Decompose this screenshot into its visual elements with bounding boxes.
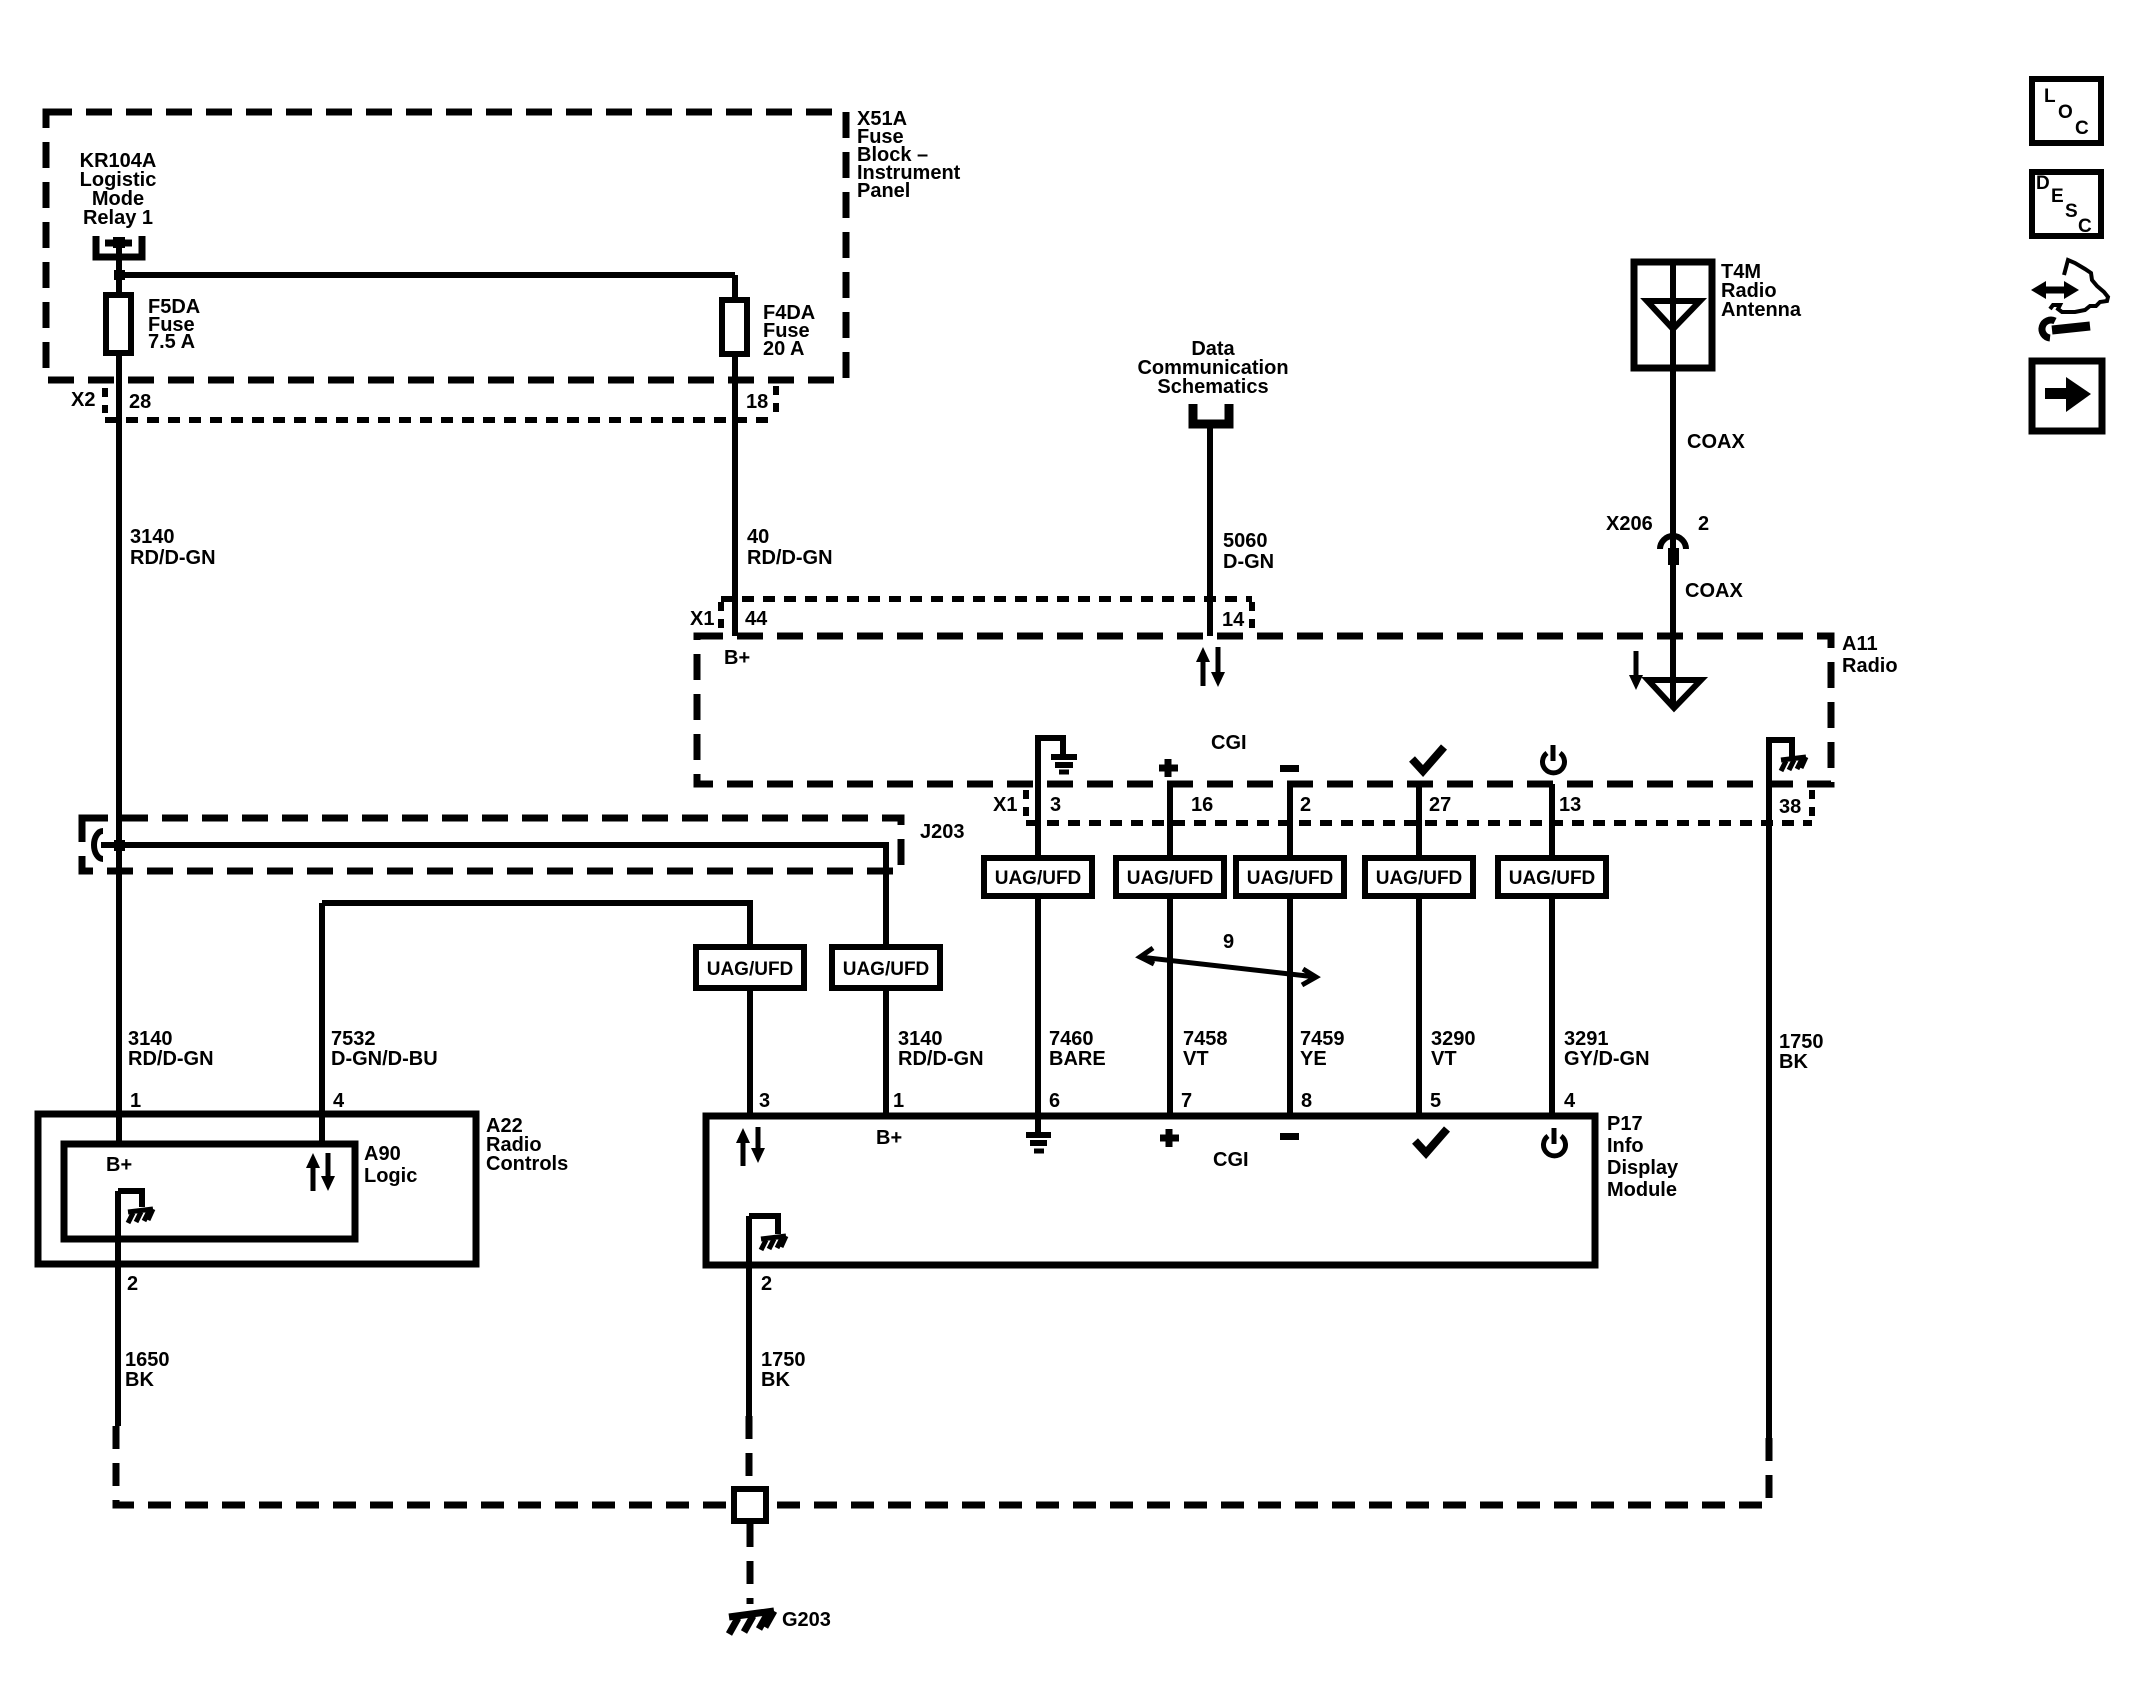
svg-text:YE: YE	[1300, 1048, 1327, 1070]
svg-text:1750: 1750	[1779, 1031, 1824, 1053]
svg-text:RD/D-GN: RD/D-GN	[128, 1048, 214, 1070]
check symbol P17	[1415, 1129, 1447, 1153]
icon wrench	[2042, 320, 2090, 338]
svg-text:9: 9	[1223, 931, 1234, 953]
svg-text:UAG/UFD: UAG/UFD	[707, 959, 794, 980]
bidirectional arrows P17	[736, 1127, 765, 1166]
dashed wire to G203	[747, 1524, 754, 1604]
svg-text:C: C	[2078, 216, 2092, 237]
svg-text:3: 3	[1050, 794, 1061, 816]
wire 1750 BK right	[1766, 784, 1772, 1438]
wire P17 pin1 below splice	[883, 988, 889, 1116]
svg-text:Module: Module	[1607, 1179, 1677, 1201]
connector X1 bottom strip	[1026, 790, 1812, 823]
wire 5060 D-GN	[1207, 424, 1213, 636]
radio controls A22 box	[38, 1114, 476, 1264]
connector X206 arc symbol	[1660, 536, 1686, 565]
wire horizontal to F4DA	[119, 272, 735, 278]
svg-text:Logic: Logic	[364, 1165, 417, 1187]
chassis ground P17	[749, 1216, 786, 1250]
splice box UAG/UFD pin16	[1116, 858, 1224, 896]
label X51A Fuse Block Instrument Panel	[857, 108, 961, 202]
chassis ground A90	[118, 1191, 153, 1223]
label 7460 BARE	[1049, 1028, 1106, 1070]
svg-text:2: 2	[1300, 794, 1311, 816]
splice node square	[734, 1489, 766, 1521]
power symbol radio	[1543, 745, 1565, 773]
bidirectional arrows A90	[306, 1153, 335, 1191]
splice box UAG/UFD pin27	[1365, 858, 1473, 896]
icon LOC box	[2032, 79, 2101, 143]
svg-text:RD/D-GN: RD/D-GN	[747, 547, 833, 569]
minus symbol P17	[1280, 1133, 1299, 1140]
splice box UAG/UFD pin13	[1498, 858, 1606, 896]
earth ground radio pin 3	[1038, 738, 1077, 784]
svg-text:3140: 3140	[898, 1028, 943, 1050]
connector J203 dashed box	[82, 818, 901, 871]
svg-text:P17: P17	[1607, 1113, 1643, 1135]
splice arc	[94, 831, 103, 859]
svg-text:3291: 3291	[1564, 1028, 1609, 1050]
svg-text:1: 1	[130, 1090, 141, 1112]
radio antenna T4M box	[1634, 262, 1712, 368]
splice box UAG/UFD p17 pin1	[832, 947, 940, 988]
svg-text:13: 13	[1559, 794, 1581, 816]
svg-text:UAG/UFD: UAG/UFD	[1376, 868, 1463, 889]
svg-text:X1: X1	[993, 794, 1017, 816]
svg-text:D-GN: D-GN	[1223, 551, 1274, 573]
svg-text:D-GN/D-BU: D-GN/D-BU	[331, 1048, 438, 1070]
fuse F4DA	[722, 300, 747, 354]
plus symbol radio	[1159, 759, 1178, 777]
svg-text:X206: X206	[1606, 513, 1653, 535]
earth ground P17 pin6	[1026, 1116, 1051, 1151]
svg-text:44: 44	[745, 608, 768, 630]
label 40 RD/D-GN	[747, 526, 833, 569]
svg-text:L: L	[2044, 86, 2056, 107]
svg-text:CGI: CGI	[1211, 732, 1247, 754]
svg-text:7.5 A: 7.5 A	[148, 331, 195, 353]
label 3291 GY/D-GN	[1564, 1028, 1650, 1070]
label T4M Radio Antenna	[1721, 261, 1802, 321]
label 3140 RD/D-GN lower left	[128, 1028, 214, 1070]
wire F4DA drop	[732, 275, 738, 300]
icon DESC box	[2032, 172, 2101, 237]
svg-text:C: C	[2075, 118, 2089, 139]
wire 7532 horizontal	[322, 903, 750, 947]
svg-text:7460: 7460	[1049, 1028, 1094, 1050]
label 3140 RD/D-GN center	[898, 1028, 984, 1070]
svg-text:7459: 7459	[1300, 1028, 1345, 1050]
svg-text:2: 2	[127, 1273, 138, 1295]
svg-text:8: 8	[1301, 1090, 1312, 1112]
icon car outline	[2050, 260, 2108, 312]
svg-text:Relay 1: Relay 1	[83, 207, 153, 229]
label 5060 D-GN	[1223, 530, 1274, 573]
svg-text:A11: A11	[1842, 633, 1878, 655]
svg-text:UAG/UFD: UAG/UFD	[995, 868, 1082, 889]
relay KR104A label	[80, 150, 157, 229]
wire radio pin16 column 7458	[1167, 784, 1173, 1116]
label 3290 VT	[1431, 1028, 1476, 1070]
label F4DA Fuse 20 A	[763, 302, 815, 360]
splice wire J203	[101, 845, 886, 947]
label 1750 BK center	[761, 1349, 806, 1391]
radio A11 dashed box	[697, 636, 1831, 784]
wire 3140 RD/D-GN left	[116, 353, 122, 1144]
svg-text:3140: 3140	[128, 1028, 173, 1050]
wire 1750 BK from P17 pin2	[746, 1216, 752, 1416]
splice box UAG/UFD p17 pin3	[696, 947, 804, 988]
ground G203 symbol	[729, 1611, 774, 1634]
svg-text:UAG/UFD: UAG/UFD	[1247, 868, 1334, 889]
junction dot	[114, 270, 125, 280]
connector X1 top strip	[721, 599, 1252, 631]
svg-text:COAX: COAX	[1685, 580, 1743, 602]
svg-text:J203: J203	[920, 821, 965, 843]
svg-text:7532: 7532	[331, 1028, 376, 1050]
off-page connector bracket	[1193, 404, 1229, 424]
svg-text:3: 3	[759, 1090, 770, 1112]
svg-text:4: 4	[333, 1090, 345, 1112]
svg-text:B+: B+	[876, 1127, 902, 1149]
svg-text:5060: 5060	[1223, 530, 1268, 552]
wire COAX upper	[1670, 368, 1676, 636]
junction dot J203	[114, 840, 125, 851]
svg-text:CGI: CGI	[1213, 1149, 1249, 1171]
svg-text:28: 28	[129, 391, 151, 413]
svg-text:2: 2	[1698, 513, 1709, 535]
logic A90 box	[64, 1144, 355, 1239]
svg-text:Schematics: Schematics	[1157, 376, 1268, 398]
svg-text:27: 27	[1429, 794, 1451, 816]
svg-text:RD/D-GN: RD/D-GN	[130, 547, 216, 569]
svg-text:20 A: 20 A	[763, 338, 805, 360]
svg-text:GY/D-GN: GY/D-GN	[1564, 1048, 1650, 1070]
label 3140 RD/D-GN	[130, 526, 216, 569]
svg-text:Controls: Controls	[486, 1153, 568, 1175]
label A11 Radio	[1842, 633, 1898, 677]
svg-text:G203: G203	[782, 1609, 831, 1631]
label 1650 BK	[125, 1349, 170, 1391]
wire radio pin3 column 7460	[1035, 784, 1041, 1133]
svg-text:1750: 1750	[761, 1349, 806, 1371]
bidirectional arrows pin 14	[1196, 647, 1225, 687]
power symbol P17	[1543, 1128, 1565, 1156]
svg-text:Antenna: Antenna	[1721, 299, 1802, 321]
svg-text:UAG/UFD: UAG/UFD	[1127, 868, 1214, 889]
antenna down arrow	[1629, 651, 1643, 690]
svg-text:3290: 3290	[1431, 1028, 1476, 1050]
svg-text:B+: B+	[724, 647, 750, 669]
svg-text:Info: Info	[1607, 1135, 1644, 1157]
svg-text:RD/D-GN: RD/D-GN	[898, 1048, 984, 1070]
label P17 Info Display Module	[1607, 1113, 1679, 1201]
label 1750 BK right	[1779, 1031, 1824, 1073]
fuse block X51A dashed box	[46, 112, 846, 380]
svg-text:4: 4	[1564, 1090, 1576, 1112]
plus symbol P17	[1160, 1129, 1179, 1147]
dashed ground bus left	[116, 1426, 730, 1505]
minus symbol radio	[1280, 765, 1299, 772]
wire radio pin2 column 7459	[1287, 784, 1293, 1116]
svg-text:6: 6	[1049, 1090, 1060, 1112]
svg-text:X2: X2	[71, 389, 95, 411]
wire 1650 BK	[115, 1191, 121, 1426]
svg-text:3140: 3140	[130, 526, 175, 548]
svg-text:2: 2	[761, 1273, 772, 1295]
connector X2 strip	[105, 386, 776, 420]
svg-text:A90: A90	[364, 1143, 401, 1165]
svg-text:1650: 1650	[125, 1349, 170, 1371]
chassis ground radio pin 38	[1769, 740, 1806, 784]
svg-text:BK: BK	[125, 1369, 154, 1391]
svg-text:B+: B+	[106, 1154, 132, 1176]
svg-text:16: 16	[1191, 794, 1213, 816]
svg-text:38: 38	[1779, 796, 1801, 818]
icon arrow box	[2032, 361, 2102, 431]
antenna symbol	[1647, 262, 1700, 368]
wire 40 RD/D-GN	[732, 354, 738, 636]
svg-text:Radio: Radio	[1842, 655, 1898, 677]
wire radio pin27 column 3290	[1416, 784, 1422, 1116]
dashed ground bus right	[770, 1438, 1769, 1505]
wire radio pin13 column 3291	[1549, 784, 1555, 1116]
svg-text:VT: VT	[1183, 1048, 1209, 1070]
svg-text:E: E	[2051, 186, 2064, 207]
svg-text:BK: BK	[1779, 1051, 1808, 1073]
label A90 Logic	[364, 1143, 417, 1187]
label 7458 VT	[1183, 1028, 1228, 1070]
svg-text:COAX: COAX	[1687, 431, 1745, 453]
svg-text:BK: BK	[761, 1369, 790, 1391]
icon double arrow	[2031, 281, 2079, 299]
wire relay stem	[116, 243, 122, 295]
svg-text:1: 1	[893, 1090, 904, 1112]
harness arrow 9	[1140, 948, 1316, 985]
svg-text:14: 14	[1222, 609, 1245, 631]
svg-text:S: S	[2065, 201, 2078, 222]
svg-text:UAG/UFD: UAG/UFD	[843, 959, 930, 980]
splice box UAG/UFD pin2	[1236, 858, 1344, 896]
svg-text:X1: X1	[690, 608, 714, 630]
svg-text:Display: Display	[1607, 1157, 1679, 1179]
svg-text:UAG/UFD: UAG/UFD	[1509, 868, 1596, 889]
label A22 Radio Controls	[486, 1115, 568, 1175]
svg-text:VT: VT	[1431, 1048, 1457, 1070]
check symbol radio	[1412, 747, 1444, 771]
label Data Communication Schematics	[1137, 338, 1288, 398]
fuse F5DA	[106, 295, 131, 353]
wire P17 pin3 below splice	[747, 988, 753, 1116]
svg-text:Panel: Panel	[857, 180, 910, 202]
svg-text:5: 5	[1430, 1090, 1441, 1112]
relay KR104A contact symbol	[96, 236, 142, 257]
antenna ground triangle	[1648, 636, 1701, 708]
svg-text:7458: 7458	[1183, 1028, 1228, 1050]
svg-text:40: 40	[747, 526, 769, 548]
splice box UAG/UFD pin3	[984, 858, 1092, 896]
svg-text:O: O	[2058, 102, 2073, 123]
label 7459 YE	[1300, 1028, 1345, 1070]
svg-text:7: 7	[1181, 1090, 1192, 1112]
svg-text:18: 18	[746, 391, 768, 413]
wire 7532 drop to A90	[319, 903, 325, 1144]
svg-text:D: D	[2036, 173, 2050, 194]
svg-text:BARE: BARE	[1049, 1048, 1106, 1070]
info display module P17 box	[706, 1116, 1595, 1265]
dashed ground drop from P17	[746, 1416, 753, 1488]
label F5DA Fuse 7.5 A	[148, 296, 200, 353]
label 7532 D-GN/D-BU	[331, 1028, 438, 1070]
